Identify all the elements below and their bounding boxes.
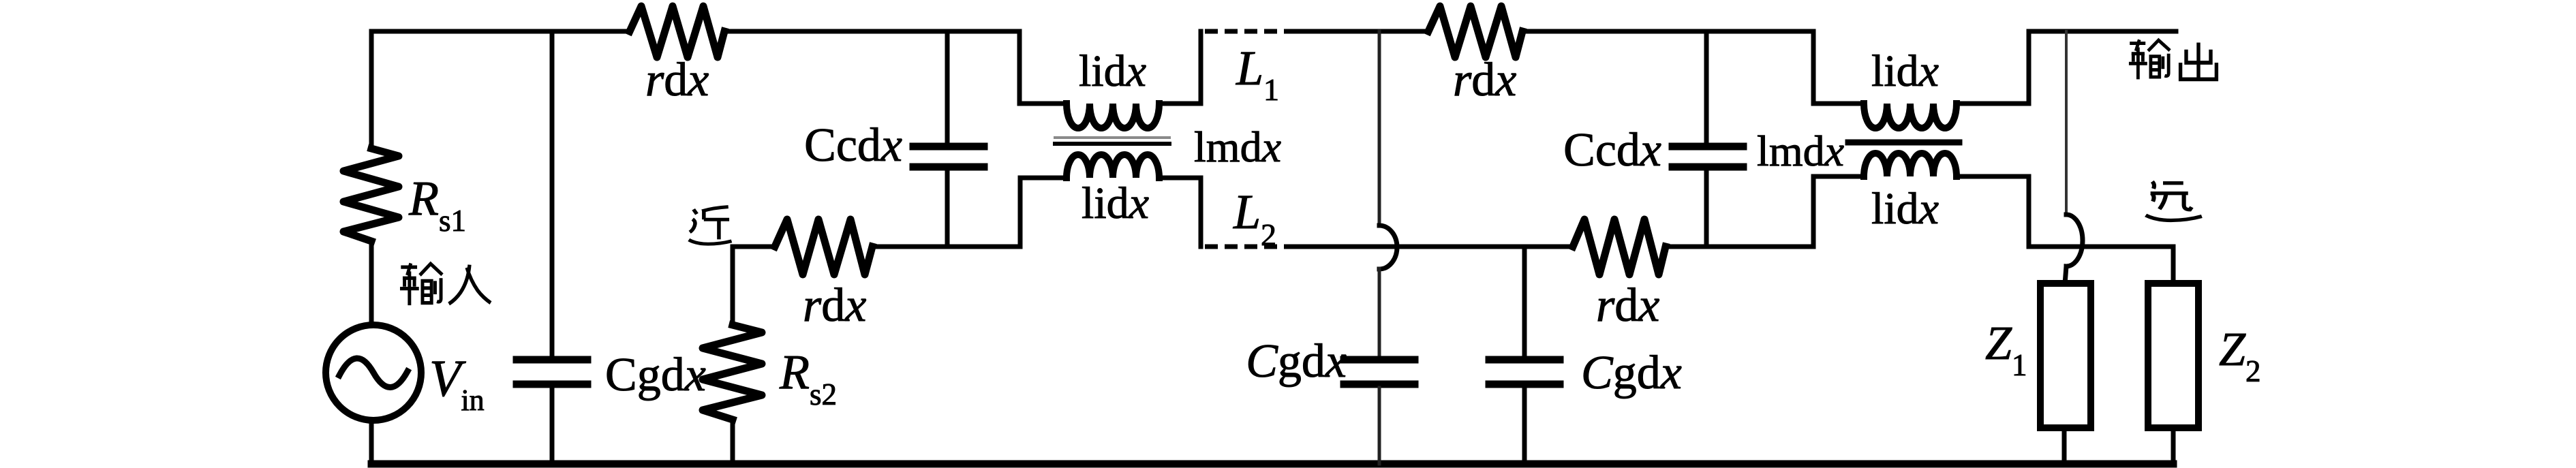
impedance Z2 box: [2148, 283, 2198, 428]
wire left vertical top (source to top rail): [369, 31, 374, 149]
svg-text:L1: L1: [1236, 41, 1279, 107]
wire top rail left segment: [371, 29, 630, 34]
resistor Rs2: [703, 325, 762, 420]
svg-text:lmdx: lmdx: [1757, 127, 1844, 175]
resistor rdx (lower, section 2): [1573, 219, 1666, 275]
svg-text:lidx: lidx: [1871, 184, 1939, 234]
wire bottom ground rail: [371, 461, 2173, 468]
wire below Z1 to ground: [2062, 428, 2067, 464]
svg-text:Cgdx: Cgdx: [605, 349, 706, 401]
wire top rail right to output: [2029, 29, 2176, 34]
wire vertical at x=810 from top rail to Cgdx cap: [550, 31, 555, 357]
wire dashed top segment at node L1: [1205, 29, 1296, 34]
wire lower rail far-end segment: [2029, 245, 2173, 249]
svg-text:lidx: lidx: [1079, 46, 1146, 96]
impedance Z1 box: [2040, 283, 2091, 428]
capacitor Cgdx (input side): [517, 356, 587, 364]
wire lower rail after rdx to T1: [872, 245, 1020, 249]
wire top rail after rdx2 to transformer T2: [1522, 29, 1813, 34]
svg-text:lidx: lidx: [1082, 178, 1149, 228]
svg-text:Ccdx: Ccdx: [804, 119, 902, 172]
wire far-end corner down to Z2: [2171, 247, 2176, 284]
wire hop over far-end rail at x=3032: [2066, 215, 2083, 266]
label 远 (far end): [2146, 182, 2202, 221]
svg-text:Cgdx: Cgdx: [1581, 347, 1682, 399]
wire thin vertical x=2024 from top rail to hop: [1378, 31, 1381, 226]
wire vertical x=2237 from lower rail to Cgdx B: [1522, 247, 1527, 357]
svg-text:Cgdx: Cgdx: [1246, 335, 1347, 388]
label 近 (near end): [689, 207, 732, 245]
wire below Cgdx B to ground: [1522, 388, 1527, 464]
transformer T1 core: [1055, 136, 1169, 139]
svg-text:rdx: rdx: [645, 54, 709, 106]
capacitor Ccdx (section 1): [913, 143, 984, 151]
wire lower rail middle segment: [1299, 245, 1573, 249]
transformer T2 top winding lidx: [1813, 31, 1864, 104]
wire below Cgdx to ground: [550, 388, 555, 464]
svg-text:lmdx: lmdx: [1194, 123, 1281, 171]
sine wave inside Vin: [339, 358, 408, 388]
svg-text:lidx: lidx: [1871, 46, 1939, 96]
transformer T1 top winding lidx: [1019, 31, 1067, 104]
svg-text:rdx: rdx: [1596, 279, 1659, 332]
transformer T1 bottom winding lidx: [1020, 178, 1067, 247]
svg-text:Rs2: Rs2: [779, 345, 837, 411]
wire hop over lower rail at x=2024: [1379, 225, 1397, 269]
resistor rdx (top, section 1): [630, 6, 724, 57]
svg-text:Vin: Vin: [429, 350, 485, 417]
svg-text:Rs1: Rs1: [408, 171, 466, 238]
label 输入 (input): [400, 264, 442, 306]
capacitor Cgdx B (middle right): [1489, 356, 1560, 364]
capacitor Cgdx A (middle left): [1344, 356, 1415, 364]
wire top rail middle segment: [1296, 29, 1428, 34]
label 输出 (output): [2129, 40, 2170, 79]
svg-text:Z2: Z2: [2219, 324, 2260, 388]
wire below Rs2 to ground: [731, 420, 735, 464]
svg-text:L2: L2: [1233, 185, 1276, 252]
wire below hop into Z1: [2065, 266, 2066, 284]
wire below Vin to ground rail: [369, 420, 374, 464]
wire top rail between rdx and transformer T1: [724, 29, 1019, 34]
wire vertical from top rail to Ccdx2: [1704, 31, 1709, 144]
wire below hop to Cgdx A: [1378, 268, 1381, 357]
wire below Cgdx A to ground: [1378, 388, 1381, 464]
wire thin vertical x=3032 from top rail to hop: [2065, 31, 2068, 215]
wire between Rs1 and Vin: [369, 241, 374, 325]
svg-text:rdx: rdx: [803, 279, 866, 332]
source Vin circle: [326, 325, 421, 420]
capacitor Ccdx (section 2): [1672, 143, 1743, 151]
resistor Rs1: [343, 149, 399, 241]
resistor rdx (top, section 2): [1428, 6, 1522, 57]
svg-text:Ccdx: Ccdx: [1563, 124, 1661, 176]
wire lower rail after rdx4 to T2: [1666, 245, 1813, 249]
wire lower rail near-end segment: [733, 245, 775, 249]
wire dashed lower segment at node L2: [1205, 245, 1299, 249]
wire below Z2 to ground: [2171, 428, 2176, 464]
svg-text:rdx: rdx: [1453, 54, 1516, 106]
resistor rdx (lower, section 1): [775, 219, 872, 275]
wire below Ccdx1 to lower rail: [945, 170, 950, 247]
transformer T2 core: [1848, 140, 1959, 146]
wire near-end corner vertical down to Rs2: [731, 247, 735, 325]
wire vertical from top rail to Ccdx1: [945, 31, 950, 144]
wire below Ccdx2 to lower rail: [1704, 170, 1709, 247]
svg-text:Z1: Z1: [1985, 317, 2027, 382]
transformer T2 bottom winding lidx: [1813, 176, 1864, 247]
